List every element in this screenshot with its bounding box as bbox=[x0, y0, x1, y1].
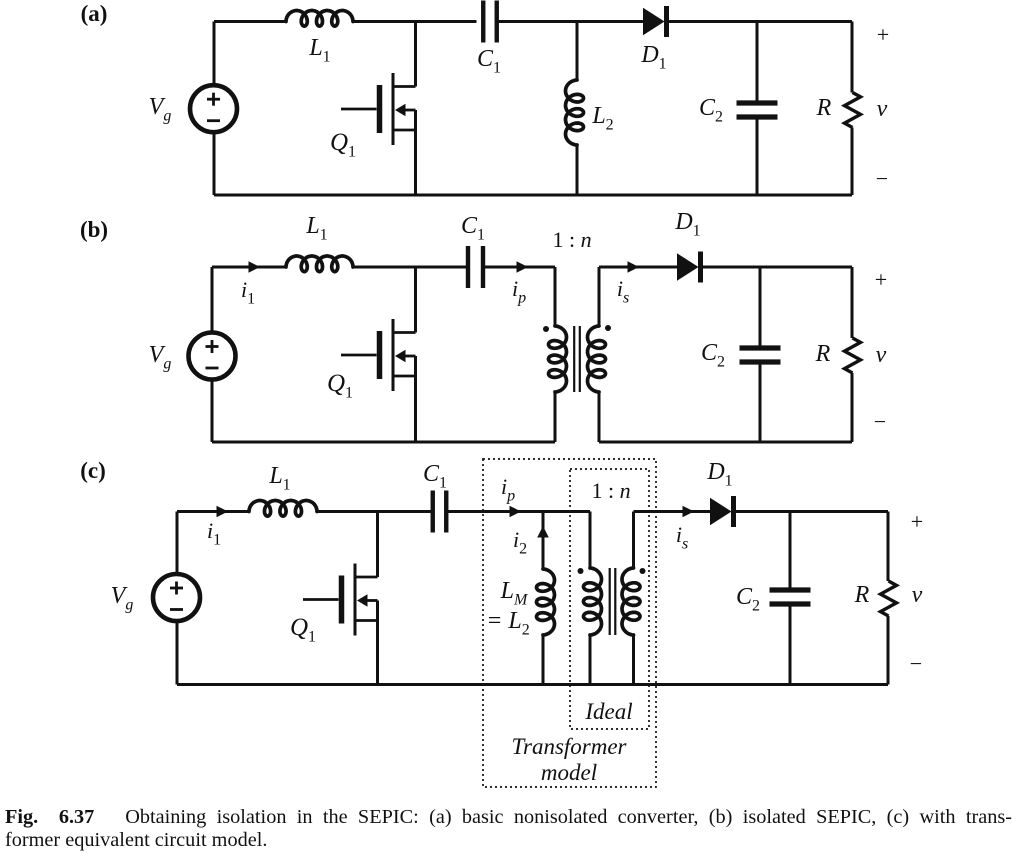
capacitor C2 (a) bbox=[737, 103, 778, 117]
wire b: secondary top rail bbox=[599, 266, 677, 269]
label ip (c) bbox=[501, 474, 515, 505]
wire b: left vertical lower bbox=[211, 379, 214, 442]
label v (b) bbox=[876, 342, 887, 368]
wire c: bottom rail bbox=[177, 683, 888, 686]
svg-text:(b): (b) bbox=[80, 217, 108, 242]
transformer primary top lead (b) bbox=[554, 267, 557, 326]
diode D1 (a) bbox=[643, 6, 667, 37]
svg-text:Vg: Vg bbox=[149, 94, 172, 125]
wire a: bottom rail bbox=[214, 194, 852, 197]
svg-text:v: v bbox=[912, 582, 923, 608]
wire c: top rail C1 to LM bbox=[447, 510, 544, 513]
mosfet Q1 (c) bbox=[303, 564, 378, 636]
wire c: top-left segment bbox=[177, 510, 249, 513]
svg-text:v: v bbox=[877, 96, 888, 122]
wire c: right rail upper bbox=[887, 512, 890, 582]
label Vg (c) bbox=[111, 583, 134, 614]
svg-text:L2: L2 bbox=[591, 103, 613, 134]
transformer primary winding (b) bbox=[549, 326, 567, 392]
label (c) bbox=[80, 458, 106, 483]
transformer secondary winding (b) bbox=[588, 326, 606, 392]
wire b: top-left segment bbox=[212, 266, 286, 269]
svg-text:C1: C1 bbox=[477, 46, 501, 77]
wire c: left vertical lower bbox=[176, 621, 179, 685]
wire a: top rail L1 to C1 bbox=[353, 20, 477, 23]
label 1:n (c) bbox=[591, 478, 630, 503]
capacitor C1 (a) bbox=[483, 1, 497, 43]
arrow is (b) bbox=[628, 261, 640, 273]
capacitor C1 (b) bbox=[468, 246, 483, 288]
svg-text:+: + bbox=[875, 267, 887, 292]
transformer secondary top lead (b) bbox=[598, 267, 601, 326]
svg-text:R: R bbox=[854, 582, 870, 608]
label Q1 (c) bbox=[290, 614, 316, 646]
svg-text:+: + bbox=[877, 22, 889, 47]
polarity dot primary (c) bbox=[578, 568, 584, 574]
wire c: C2 bottom vertical bbox=[789, 604, 792, 685]
inductor L2 (a) bbox=[566, 80, 584, 145]
mosfet Q1 (b) bbox=[341, 319, 416, 391]
label is (b) bbox=[617, 276, 629, 307]
wire a: left vertical upper bbox=[213, 22, 216, 87]
wire b: left vertical upper bbox=[211, 267, 214, 333]
wire c: Q1 source vertical bbox=[376, 601, 379, 685]
svg-text:C1: C1 bbox=[461, 213, 485, 244]
svg-text:L1: L1 bbox=[305, 213, 327, 244]
dashed box: ideal transformer bbox=[570, 469, 649, 729]
wire a: left vertical lower bbox=[213, 132, 216, 196]
label C1 (a) bbox=[477, 46, 501, 77]
wire c: secondary top rail bbox=[634, 510, 711, 513]
wire b: C2 bottom vertical bbox=[759, 362, 762, 442]
arrow ip (c) bbox=[510, 506, 522, 518]
label Vg (a) bbox=[149, 94, 172, 125]
label i2 (c) bbox=[513, 527, 527, 558]
label D1 (c) bbox=[706, 459, 732, 490]
wire b: right rail upper bbox=[851, 267, 854, 338]
capacitor C2 (b) bbox=[740, 348, 781, 362]
svg-text:L1: L1 bbox=[268, 463, 290, 494]
voltage source Vg (a) bbox=[190, 85, 237, 132]
svg-text:LM: LM bbox=[500, 578, 529, 609]
label R (c) bbox=[854, 582, 870, 608]
wire c: right rail lower bbox=[887, 616, 890, 685]
svg-text:is: is bbox=[676, 522, 688, 553]
svg-text:+: + bbox=[911, 509, 923, 534]
wire a: Q1 source vertical bbox=[414, 110, 417, 195]
label D1 (b) bbox=[674, 209, 700, 240]
wire a: C2 top vertical bbox=[756, 22, 759, 104]
wire c: left vertical upper bbox=[176, 512, 179, 575]
wire b: C2 top vertical bbox=[759, 267, 762, 348]
label model bbox=[541, 760, 597, 785]
dashed box: transformer model bbox=[483, 459, 656, 787]
label R (a) bbox=[816, 95, 832, 121]
svg-text:v: v bbox=[876, 342, 887, 368]
svg-text:(c): (c) bbox=[80, 458, 106, 483]
resistor R (a) bbox=[845, 93, 861, 128]
wire c: top rail LM to primary bbox=[543, 510, 590, 513]
label =L2 (c) bbox=[486, 608, 530, 639]
transformer primary winding (c) bbox=[584, 568, 602, 635]
wire b: right rail lower bbox=[851, 373, 854, 442]
wire b: top rail C1 to primary bbox=[483, 266, 555, 269]
transformer secondary bottom lead (b) bbox=[598, 392, 601, 442]
svg-text:(a): (a) bbox=[81, 1, 108, 26]
transformer core (c) bbox=[610, 568, 616, 635]
wire c: LM top vertical bbox=[542, 512, 545, 570]
capacitor C1 (c) bbox=[433, 491, 447, 533]
wire a: L2 top vertical bbox=[576, 22, 579, 81]
label v (c) bbox=[912, 582, 923, 608]
svg-text:= L2: = L2 bbox=[486, 608, 530, 639]
capacitor C2 (c) bbox=[770, 590, 811, 604]
svg-text:Q1: Q1 bbox=[327, 370, 353, 402]
label Transformer bbox=[511, 734, 627, 759]
svg-text:Q1: Q1 bbox=[330, 129, 356, 161]
label + (b) bbox=[875, 267, 887, 292]
transformer primary bottom lead (b) bbox=[554, 392, 557, 442]
svg-text:i2: i2 bbox=[513, 527, 527, 558]
label Ideal bbox=[584, 699, 632, 724]
label LM (c) bbox=[500, 578, 529, 609]
inductor L1 (b) bbox=[286, 256, 353, 272]
label ip (b) bbox=[512, 276, 526, 307]
label R (b) bbox=[815, 341, 831, 367]
label v (a) bbox=[877, 96, 888, 122]
voltage source Vg (b) bbox=[189, 333, 236, 380]
svg-text:is: is bbox=[617, 276, 629, 307]
svg-text:model: model bbox=[541, 760, 597, 785]
svg-text:D1: D1 bbox=[706, 459, 732, 490]
wire a: right rail upper bbox=[851, 22, 854, 93]
label C2 (c) bbox=[736, 584, 760, 615]
label + (c) bbox=[911, 509, 923, 534]
label C2 (b) bbox=[701, 340, 725, 371]
label i1 (b) bbox=[241, 277, 255, 308]
label Q1 (a) bbox=[330, 129, 356, 161]
svg-text:1 : n: 1 : n bbox=[552, 227, 591, 252]
wire b: bottom rail right (secondary side) bbox=[599, 441, 852, 444]
transformer primary top lead (c) bbox=[589, 512, 592, 569]
svg-text:C2: C2 bbox=[736, 584, 760, 615]
wire a: top-left segment bbox=[214, 20, 286, 23]
svg-text:−: − bbox=[910, 651, 922, 676]
svg-text:Vg: Vg bbox=[149, 342, 172, 373]
svg-text:i1: i1 bbox=[241, 277, 255, 308]
inductor L1 (c) bbox=[249, 501, 317, 517]
wire c: Q1 drain vertical bbox=[376, 512, 379, 578]
transformer secondary winding (c) bbox=[622, 568, 640, 635]
wire c: LM bottom vertical bbox=[542, 635, 545, 685]
label - (a) bbox=[876, 166, 888, 191]
label C2 (a) bbox=[699, 95, 723, 126]
svg-text:−: − bbox=[876, 166, 888, 191]
arrow ip (b) bbox=[517, 261, 529, 273]
svg-text:R: R bbox=[815, 341, 831, 367]
svg-text:C2: C2 bbox=[699, 95, 723, 126]
arrow i1 (c) bbox=[217, 506, 229, 518]
wire a: L2 bottom vertical bbox=[576, 145, 579, 195]
label L1 (b) bbox=[305, 213, 327, 244]
wire a: Q1 drain vertical bbox=[414, 22, 417, 87]
resistor R (b) bbox=[845, 338, 861, 373]
polarity dot primary (b) bbox=[543, 326, 549, 332]
svg-text:ip: ip bbox=[512, 276, 526, 307]
label - (b) bbox=[874, 409, 886, 434]
label C1 (c) bbox=[423, 461, 447, 492]
label Q1 (b) bbox=[327, 370, 353, 402]
inductor LM (c) bbox=[537, 569, 555, 635]
label L1 (c) bbox=[268, 463, 290, 494]
wire a: right rail lower bbox=[851, 128, 854, 196]
label + (a) bbox=[877, 22, 889, 47]
svg-text:Ideal: Ideal bbox=[584, 699, 632, 724]
svg-text:Vg: Vg bbox=[111, 583, 134, 614]
label L2 (a) bbox=[591, 103, 613, 134]
svg-text:−: − bbox=[874, 409, 886, 434]
label 1:n (b) bbox=[552, 227, 591, 252]
svg-text:C2: C2 bbox=[701, 340, 725, 371]
wire c: top rail L1 to C1 bbox=[317, 510, 433, 513]
arrow i1 (b) bbox=[249, 261, 261, 273]
arrow is (c) bbox=[683, 506, 695, 518]
wire b: top rail L1 to C1 bbox=[353, 266, 466, 269]
polarity dot secondary (c) bbox=[640, 568, 646, 574]
inductor L1 (a) bbox=[286, 11, 353, 27]
wire a: top rail C1 to D1 bbox=[497, 20, 643, 23]
svg-text:Q1: Q1 bbox=[290, 614, 316, 646]
svg-text:1 : n: 1 : n bbox=[591, 478, 630, 503]
label i1 (c) bbox=[207, 518, 221, 549]
wire b: top rail D1 to right bbox=[702, 266, 853, 269]
label D1 (a) bbox=[640, 42, 666, 73]
svg-text:Transformer: Transformer bbox=[511, 734, 627, 759]
label L1 (a) bbox=[308, 35, 330, 66]
svg-text:R: R bbox=[816, 95, 832, 121]
polarity dot secondary (b) bbox=[605, 325, 611, 331]
transformer primary bottom lead (c) bbox=[589, 635, 592, 685]
resistor R (c) bbox=[881, 581, 897, 616]
label (b) bbox=[80, 217, 108, 242]
svg-text:i1: i1 bbox=[207, 518, 221, 549]
label (a) bbox=[81, 1, 108, 26]
transformer secondary bottom lead (c) bbox=[632, 635, 635, 685]
wire b: Q1 source vertical bbox=[414, 356, 417, 442]
mosfet Q1 (a) bbox=[341, 73, 416, 145]
transformer core (b) bbox=[574, 326, 580, 392]
label C1 (b) bbox=[461, 213, 485, 244]
svg-text:ip: ip bbox=[501, 474, 515, 505]
label Vg (b) bbox=[149, 342, 172, 373]
svg-text:D1: D1 bbox=[674, 209, 700, 240]
wire c: C2 top vertical bbox=[789, 512, 792, 591]
diode D1 (b) bbox=[677, 252, 701, 283]
svg-text:D1: D1 bbox=[640, 42, 666, 73]
wire b: bottom rail left (primary side) bbox=[212, 441, 555, 444]
svg-text:L1: L1 bbox=[308, 35, 330, 66]
transformer secondary top lead (c) bbox=[632, 512, 635, 569]
svg-text:C1: C1 bbox=[423, 461, 447, 492]
wire a: C2 bottom vertical bbox=[756, 117, 759, 195]
wire c: top rail D1 to right bbox=[735, 510, 889, 513]
arrow i2 (c) bbox=[537, 526, 549, 538]
voltage source Vg (c) bbox=[153, 574, 200, 621]
wire a: top rail D1 to right bbox=[668, 20, 853, 23]
label is (c) bbox=[676, 522, 688, 553]
diode D1 (c) bbox=[710, 496, 734, 527]
label - (c) bbox=[910, 651, 922, 676]
wire b: Q1 drain vertical bbox=[414, 267, 417, 333]
